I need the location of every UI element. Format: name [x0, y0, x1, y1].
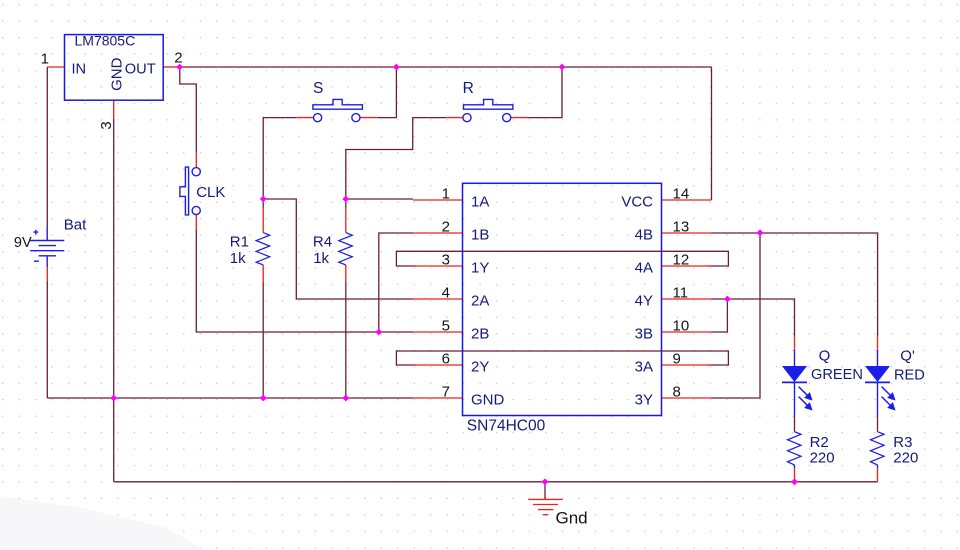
- svg-text:R1: R1: [230, 234, 249, 251]
- svg-text:Bat: Bat: [64, 216, 87, 233]
- svg-text:1B: 1B: [471, 226, 489, 243]
- svg-text:4: 4: [442, 285, 450, 302]
- svg-text:GREEN: GREEN: [811, 367, 863, 383]
- svg-text:14: 14: [673, 186, 690, 203]
- svg-text:2B: 2B: [471, 325, 489, 342]
- svg-text:4Y: 4Y: [635, 292, 653, 309]
- svg-text:5: 5: [442, 318, 450, 335]
- svg-text:R4: R4: [313, 234, 332, 251]
- svg-text:13: 13: [673, 219, 690, 236]
- svg-text:2: 2: [442, 219, 450, 236]
- svg-text:8: 8: [673, 384, 681, 401]
- svg-text:OUT: OUT: [125, 61, 156, 77]
- svg-text:3: 3: [442, 252, 450, 269]
- svg-text:CLK: CLK: [196, 184, 225, 201]
- svg-text:9: 9: [673, 351, 681, 368]
- svg-text:VCC: VCC: [621, 193, 653, 210]
- svg-text:12: 12: [673, 252, 690, 269]
- svg-text:3B: 3B: [635, 325, 653, 342]
- svg-text:Gnd: Gnd: [556, 509, 588, 528]
- svg-text:R3: R3: [893, 434, 912, 451]
- svg-text:3Y: 3Y: [635, 391, 653, 408]
- svg-text:GND: GND: [108, 57, 125, 91]
- svg-text:SN74HC00: SN74HC00: [467, 418, 546, 435]
- svg-text:4B: 4B: [635, 226, 653, 243]
- svg-text:3A: 3A: [635, 358, 653, 375]
- svg-text:10: 10: [673, 318, 690, 335]
- svg-text:4A: 4A: [635, 259, 653, 276]
- svg-text:2: 2: [174, 50, 182, 67]
- svg-text:1k: 1k: [230, 250, 246, 267]
- svg-text:S: S: [313, 80, 323, 97]
- svg-text:IN: IN: [72, 61, 87, 77]
- svg-text:1: 1: [41, 51, 49, 68]
- svg-text:3: 3: [98, 121, 115, 129]
- svg-text:RED: RED: [894, 367, 925, 383]
- svg-text:1: 1: [442, 186, 450, 203]
- svg-text:6: 6: [442, 351, 450, 368]
- svg-text:R2: R2: [810, 434, 829, 451]
- svg-text:1A: 1A: [471, 193, 489, 210]
- svg-text:2A: 2A: [471, 292, 489, 309]
- svg-text:9V: 9V: [14, 235, 32, 251]
- svg-text:GND: GND: [471, 391, 505, 408]
- svg-text:1k: 1k: [313, 250, 329, 267]
- svg-text:LM7805C: LM7805C: [75, 33, 136, 49]
- svg-text:11: 11: [673, 285, 689, 302]
- svg-text:7: 7: [442, 384, 450, 401]
- svg-text:1Y: 1Y: [471, 259, 489, 276]
- svg-text:220: 220: [893, 450, 918, 467]
- svg-text:Q': Q': [900, 348, 915, 365]
- svg-text:220: 220: [810, 450, 835, 467]
- svg-text:2Y: 2Y: [471, 358, 489, 375]
- svg-text:R: R: [463, 80, 474, 97]
- svg-text:Q: Q: [819, 348, 831, 365]
